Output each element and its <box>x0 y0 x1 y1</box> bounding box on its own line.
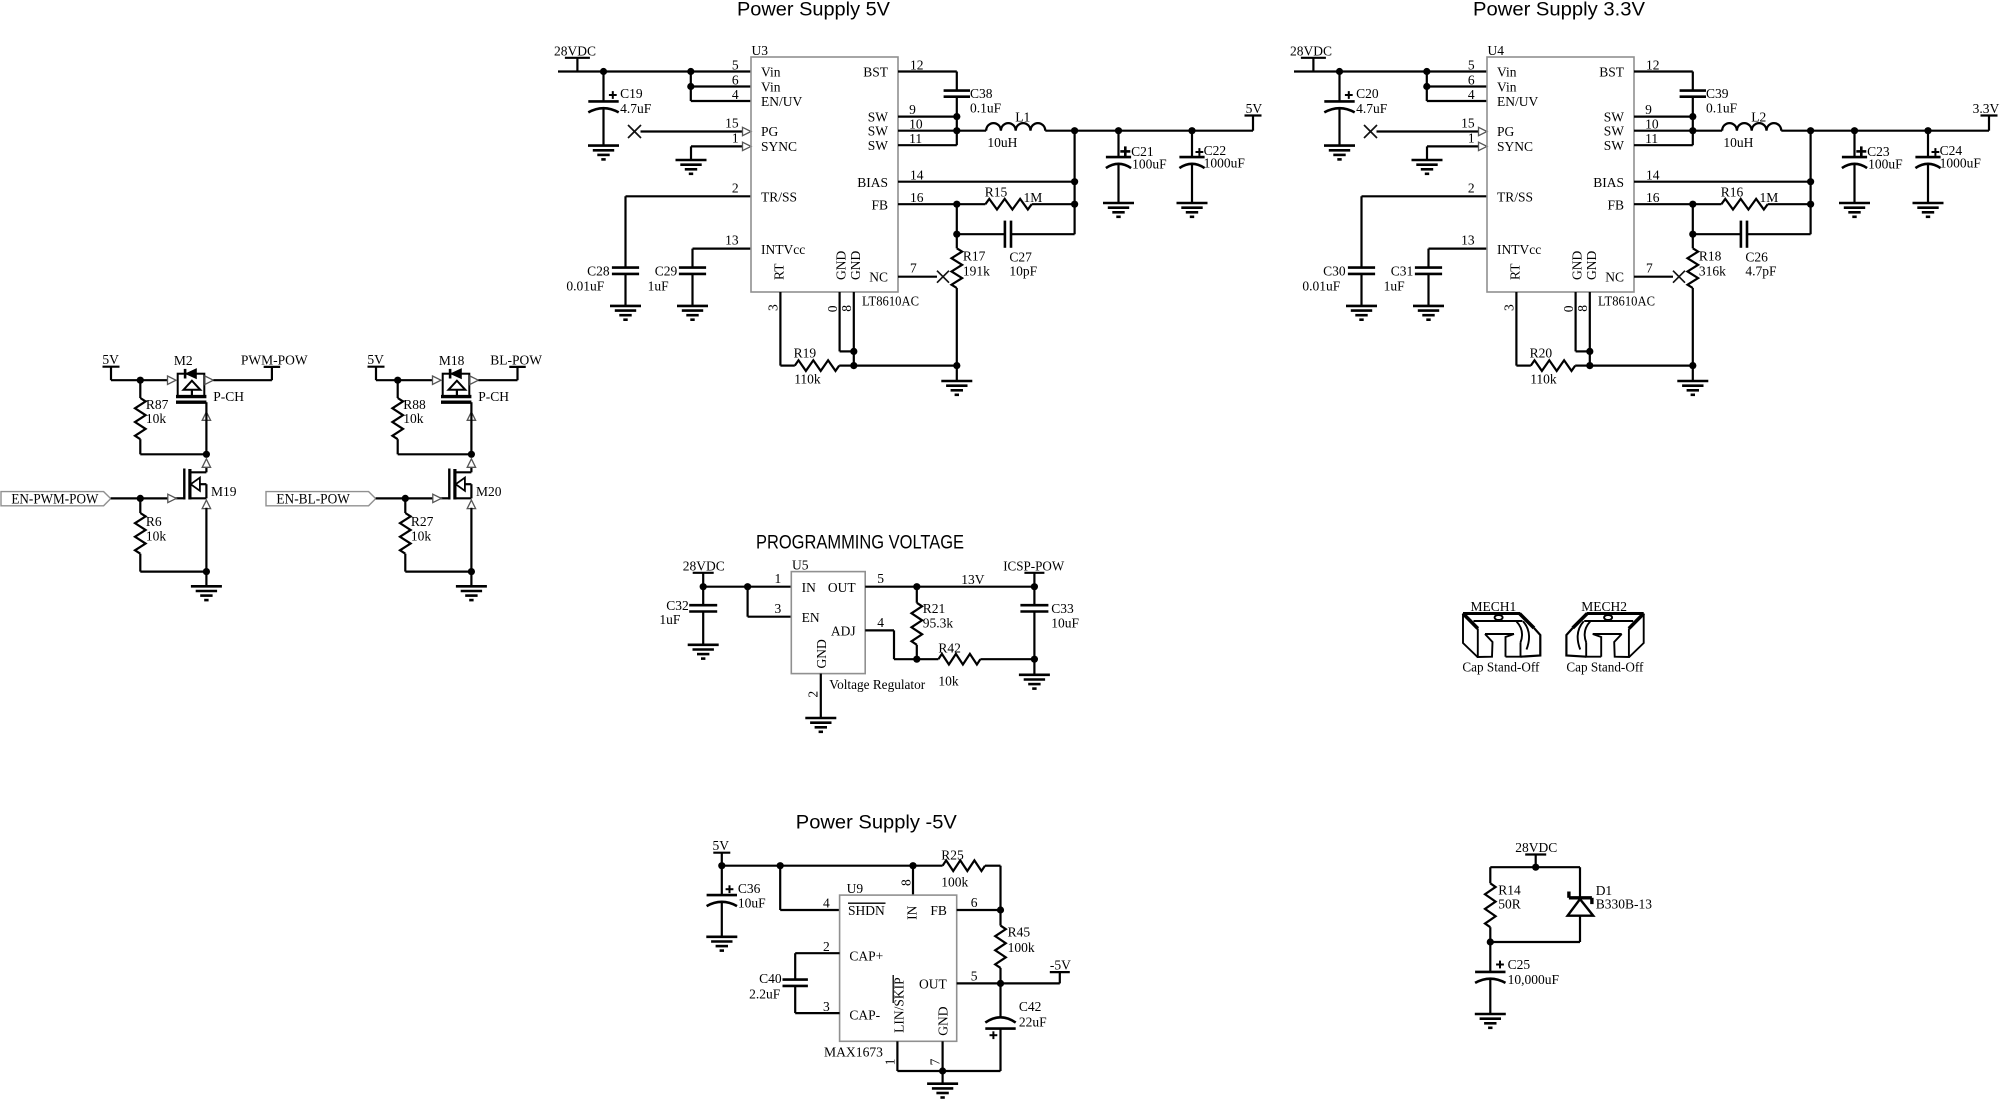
ground (IC) <box>1677 380 1708 383</box>
svg-text:L2: L2 <box>1751 110 1766 125</box>
svg-text:C36: C36 <box>738 881 761 896</box>
wire CAP- pin 3 <box>795 1012 839 1014</box>
svg-text:C25: C25 <box>1508 957 1531 972</box>
junction <box>953 231 960 238</box>
junction <box>953 362 960 369</box>
svg-text:IN: IN <box>802 580 816 595</box>
svg-text:MAX1673: MAX1673 <box>824 1045 883 1060</box>
svg-text:11: 11 <box>1645 131 1658 146</box>
wire FB to C27 <box>1692 204 1694 234</box>
svg-text:OUT: OUT <box>828 580 856 595</box>
wire gate down <box>205 402 207 454</box>
svg-text:ADJ: ADJ <box>831 624 856 639</box>
svg-text:C30: C30 <box>1323 264 1346 279</box>
svg-text:U3: U3 <box>752 43 769 58</box>
svg-text:TR/SS: TR/SS <box>761 190 797 205</box>
svg-text:INTVcc: INTVcc <box>1497 242 1541 257</box>
capacitor C33 10uF <box>1033 587 1035 606</box>
svg-text:8: 8 <box>899 879 914 886</box>
svg-text:10k: 10k <box>938 673 959 688</box>
resistor R27 10k <box>404 498 406 513</box>
svg-text:4: 4 <box>732 87 739 102</box>
svg-text:SYNC: SYNC <box>761 139 797 154</box>
wire GND net <box>854 365 957 367</box>
transistor M2 P-CH body <box>178 374 205 397</box>
capacitor C38 0.1uF <box>944 89 970 92</box>
ground (SYNC) <box>1412 159 1443 162</box>
transistor M18 P-CH body <box>443 374 470 397</box>
svg-text:GND: GND <box>834 251 849 280</box>
wire to C29 <box>1427 249 1429 268</box>
capacitor C36 10uF <box>721 866 723 895</box>
wire OUT pin 5 <box>957 982 1060 984</box>
wire inductor to 5V <box>1045 130 1253 132</box>
gate arrow up <box>467 412 475 421</box>
wire to C29 <box>691 249 693 268</box>
svg-text:Voltage Regulator: Voltage Regulator <box>829 677 925 692</box>
capacitor C27 10pF <box>957 233 1005 235</box>
junction <box>687 83 694 90</box>
power flag 28VDC (D1) <box>1525 853 1546 855</box>
svg-text:NC: NC <box>1605 269 1624 284</box>
wire C33 to ground <box>1033 659 1035 675</box>
svg-text:OUT: OUT <box>919 977 947 992</box>
svg-text:0.1uF: 0.1uF <box>970 101 1002 116</box>
junction <box>1851 127 1858 134</box>
power flag 5V (M18) <box>368 366 385 368</box>
svg-text:EN/UV: EN/UV <box>761 94 802 109</box>
svg-text:316k: 316k <box>1699 264 1726 279</box>
wire TR/SS pin 2 <box>626 195 752 197</box>
wire TR/SS pin 2 <box>1362 195 1488 197</box>
svg-text:50R: 50R <box>1498 897 1521 912</box>
capacitor C32 1uF <box>702 587 704 606</box>
junction <box>1071 201 1078 208</box>
arrow drain up <box>202 459 210 468</box>
svg-text:SW: SW <box>868 138 889 153</box>
wire 5V to source <box>111 379 168 381</box>
wire Vin branch vertical <box>690 72 692 102</box>
junction <box>1586 348 1593 355</box>
ground (M20) <box>456 585 487 588</box>
svg-text:SW: SW <box>1604 123 1625 138</box>
svg-text:PG: PG <box>1497 124 1515 139</box>
wire ADJ to R42 <box>894 658 917 660</box>
power flag 28VDC (U4 block) <box>1301 57 1326 59</box>
svg-text:6: 6 <box>971 895 978 910</box>
svg-text:28VDC: 28VDC <box>1290 43 1332 58</box>
capacitor C30 0.01uF <box>1348 266 1375 269</box>
svg-text:4: 4 <box>1468 87 1475 102</box>
junction <box>700 583 707 590</box>
svg-text:1M: 1M <box>1760 190 1779 205</box>
resistor R15 1M <box>957 203 986 205</box>
ground (M19) <box>191 585 222 588</box>
svg-text:2: 2 <box>732 180 739 195</box>
pin LIN/SKIP 1 lead <box>896 1041 898 1071</box>
junction <box>1924 127 1931 134</box>
wire EN to gate <box>111 497 177 499</box>
svg-text:4.7pF: 4.7pF <box>1745 264 1777 279</box>
svg-text:Power Supply 3.3V: Power Supply 3.3V <box>1473 0 1645 21</box>
svg-text:LT8610AC: LT8610AC <box>862 294 919 309</box>
power flag 5V (U9) <box>713 852 730 854</box>
ground (C25) <box>1475 1013 1506 1016</box>
junction <box>203 568 210 575</box>
svg-text:12: 12 <box>910 58 924 73</box>
svg-text:100k: 100k <box>1008 940 1035 955</box>
junction <box>1423 83 1430 90</box>
svg-text:5V: 5V <box>367 352 384 367</box>
ground (C29) <box>677 305 708 308</box>
junction <box>1689 362 1696 369</box>
junction <box>1807 178 1814 185</box>
wire BST pin 12 <box>898 70 957 72</box>
svg-text:10k: 10k <box>146 529 167 544</box>
svg-text:C31: C31 <box>1391 264 1414 279</box>
svg-text:5V: 5V <box>102 352 119 367</box>
svg-text:110k: 110k <box>794 372 821 387</box>
svg-text:Power Supply 5V: Power Supply 5V <box>737 0 890 21</box>
wire NC pin 7 <box>1634 276 1673 278</box>
svg-text:Power Supply -5V: Power Supply -5V <box>796 812 957 834</box>
junction <box>1689 231 1696 238</box>
svg-text:1: 1 <box>882 1059 897 1066</box>
svg-text:PWM-POW: PWM-POW <box>241 352 308 367</box>
power flag -5V <box>1050 971 1070 973</box>
resistor R17 191k <box>956 234 958 248</box>
wire to C28 <box>624 196 626 267</box>
wire source net <box>405 570 471 572</box>
svg-text:1uF: 1uF <box>659 612 681 627</box>
junction <box>953 127 960 134</box>
wire to ground <box>956 366 958 381</box>
svg-text:SW: SW <box>1604 138 1625 153</box>
svg-text:R25: R25 <box>941 848 964 863</box>
svg-text:5V: 5V <box>1246 101 1263 116</box>
svg-text:0.01uF: 0.01uF <box>566 279 604 294</box>
ground (C32) <box>688 643 719 646</box>
capacitor C40 2.2uF <box>783 978 808 981</box>
wire Vin branch vertical <box>1426 72 1428 102</box>
svg-text:L1: L1 <box>1015 110 1030 125</box>
svg-text:95.3k: 95.3k <box>923 616 954 631</box>
svg-text:9: 9 <box>1645 102 1652 117</box>
arrow drain up <box>467 459 475 468</box>
svg-text:SW: SW <box>1604 109 1625 124</box>
power flag 28VDC (U3 block) <box>565 57 590 59</box>
svg-text:R19: R19 <box>794 346 817 361</box>
capacitor C26 4.7pF <box>1693 233 1741 235</box>
svg-text:7: 7 <box>928 1058 943 1065</box>
inductor L1 10uH <box>986 123 1045 131</box>
pin arrow PG <box>743 127 752 135</box>
svg-text:1: 1 <box>732 130 739 145</box>
capacitor C22 1000uF <box>1191 131 1193 157</box>
wire to C38 <box>956 72 958 91</box>
svg-text:2: 2 <box>1468 180 1475 195</box>
resistor R87 10k <box>139 380 141 398</box>
svg-text:10uF: 10uF <box>1051 616 1079 631</box>
svg-text:U4: U4 <box>1488 43 1505 58</box>
svg-text:10uF: 10uF <box>738 896 766 911</box>
svg-text:CAP+: CAP+ <box>849 948 883 963</box>
wire SYNC pin <box>1427 145 1478 147</box>
svg-text:BIAS: BIAS <box>1593 175 1624 190</box>
IC U4 LT8610AC box <box>1487 57 1634 292</box>
wire source net <box>140 570 206 572</box>
junction <box>1807 127 1814 134</box>
pin arrow SYNC <box>743 142 752 150</box>
wire gate down <box>470 402 472 454</box>
ground (C31) <box>1413 305 1444 308</box>
svg-text:D1: D1 <box>1596 883 1613 898</box>
svg-text:M18: M18 <box>439 353 465 368</box>
wire source down <box>470 508 472 572</box>
svg-text:R42: R42 <box>938 641 961 656</box>
svg-text:-5V: -5V <box>1050 958 1071 973</box>
junction <box>600 68 607 75</box>
capacitor C28 0.01uF <box>612 266 639 269</box>
wire FB pin 6 <box>957 909 1001 911</box>
wire to ground <box>470 572 472 587</box>
power flag ICSP-POW <box>1024 572 1044 574</box>
svg-text:10k: 10k <box>146 411 167 426</box>
capacitor C24 1000uF <box>1927 131 1929 157</box>
svg-text:CAP-: CAP- <box>849 1008 880 1023</box>
wire output to C27 net <box>1073 131 1075 235</box>
svg-text:INTVcc: INTVcc <box>761 242 805 257</box>
svg-text:3: 3 <box>766 304 781 311</box>
transistor M19 <box>183 469 185 500</box>
svg-text:14: 14 <box>910 168 924 183</box>
ground (C23) <box>1839 202 1870 205</box>
resistor R18 316k <box>1692 234 1694 248</box>
ground (C30) <box>1346 305 1377 308</box>
resistor R16 1M <box>1693 203 1722 205</box>
svg-text:10k: 10k <box>411 529 432 544</box>
junction <box>687 68 694 75</box>
svg-text:FB: FB <box>871 197 888 212</box>
svg-text:4: 4 <box>877 615 884 630</box>
svg-text:5: 5 <box>732 58 739 73</box>
svg-text:BST: BST <box>1599 65 1625 80</box>
svg-text:FB: FB <box>1607 197 1624 212</box>
wire INTVcc pin 13 <box>1429 248 1488 250</box>
wire 28VDC to IN pin 1 <box>703 586 791 588</box>
svg-text:Vin: Vin <box>761 80 781 95</box>
pin RT lead <box>1515 292 1517 366</box>
svg-text:P-CH: P-CH <box>478 389 509 404</box>
svg-text:LT8610AC: LT8610AC <box>1598 294 1655 309</box>
junction <box>1423 68 1430 75</box>
wire 5V to source <box>376 379 433 381</box>
svg-text:0.01uF: 0.01uF <box>1302 279 1340 294</box>
junction <box>777 862 784 869</box>
junction <box>953 113 960 120</box>
svg-text:28VDC: 28VDC <box>1515 840 1557 855</box>
svg-text:R14: R14 <box>1498 883 1521 898</box>
svg-text:1uF: 1uF <box>648 279 670 294</box>
no-connect X on PG pin 15 <box>1364 125 1377 138</box>
svg-text:3: 3 <box>774 601 781 616</box>
svg-text:NC: NC <box>869 269 888 284</box>
svg-text:SHDN: SHDN <box>848 903 885 918</box>
wire CAP+ pin 2 <box>795 952 839 954</box>
svg-text:22uF: 22uF <box>1019 1015 1047 1030</box>
ground (C36) <box>706 935 737 938</box>
svg-text:FB: FB <box>930 903 947 918</box>
junction <box>744 583 751 590</box>
junction <box>1487 938 1494 945</box>
arrow source up <box>467 500 475 509</box>
junction <box>1532 864 1539 871</box>
wire to EN/UV pin 4 <box>691 100 751 102</box>
svg-text:5V: 5V <box>713 838 730 853</box>
wire SW pin 11 <box>898 144 957 146</box>
svg-text:R20: R20 <box>1530 346 1553 361</box>
wire output to C27 net <box>1809 131 1811 235</box>
svg-text:2: 2 <box>806 691 821 698</box>
junction <box>1071 178 1078 185</box>
wire SW pin 10 <box>1634 130 1693 132</box>
resistor R21 95.3k <box>916 587 918 603</box>
svg-text:GND: GND <box>848 251 863 280</box>
svg-text:PROGRAMMING VOLTAGE: PROGRAMMING VOLTAGE <box>756 532 964 554</box>
pin GND 8 lead <box>1589 292 1591 366</box>
wire GND net <box>1590 365 1693 367</box>
ground (U5) <box>805 717 836 720</box>
wire OUT to ICSP-POW <box>865 586 1034 588</box>
pin GND 0 lead <box>838 292 840 351</box>
svg-text:R27: R27 <box>411 514 434 529</box>
junction <box>1115 127 1122 134</box>
pin arrow SYNC <box>1479 142 1488 150</box>
junction <box>394 377 401 384</box>
junction <box>1807 201 1814 208</box>
svg-text:15: 15 <box>1461 116 1475 131</box>
wire to ground <box>1692 366 1694 381</box>
wire R to gate node <box>140 453 206 455</box>
svg-text:10uH: 10uH <box>1723 135 1753 150</box>
svg-text:C26: C26 <box>1745 250 1768 265</box>
svg-text:R45: R45 <box>1008 925 1031 940</box>
svg-text:10,000uF: 10,000uF <box>1508 972 1560 987</box>
wire BIAS pin 14 <box>898 181 1075 183</box>
IC U3 LT8610AC box <box>751 57 898 292</box>
svg-text:GND: GND <box>1584 251 1599 280</box>
svg-text:13: 13 <box>1461 233 1475 248</box>
junction <box>997 906 1004 913</box>
resistor R88 10k <box>397 380 399 398</box>
wire to inductor <box>957 130 986 132</box>
wire FB to C27 <box>956 204 958 234</box>
junction <box>913 583 920 590</box>
svg-text:R15: R15 <box>985 184 1008 199</box>
svg-text:16: 16 <box>1646 190 1660 205</box>
wire top rail <box>1490 866 1580 868</box>
ground (U9) <box>927 1082 958 1085</box>
wire 5V rail <box>722 865 913 867</box>
svg-text:GND: GND <box>936 1006 951 1035</box>
svg-text:M2: M2 <box>174 353 193 368</box>
no-connect X on NC <box>1673 271 1685 283</box>
capacitor C21 100uF <box>1117 131 1119 157</box>
svg-text:191k: 191k <box>963 264 990 279</box>
gate input arrow <box>433 494 442 502</box>
capacitor C31 1uF <box>1415 266 1442 269</box>
wire inductor to 3.3V <box>1781 130 1989 132</box>
resistor R42 10k <box>917 658 939 660</box>
svg-text:100uF: 100uF <box>1868 156 1903 171</box>
svg-text:13: 13 <box>725 233 739 248</box>
junction <box>850 348 857 355</box>
junction <box>1031 656 1038 663</box>
wire to ground <box>941 1071 943 1084</box>
svg-text:C32: C32 <box>666 598 689 613</box>
power flag 3.3V <box>1981 114 1998 116</box>
svg-text:4: 4 <box>823 896 830 911</box>
svg-text:M20: M20 <box>476 484 502 499</box>
resistor R25 100k <box>913 865 943 867</box>
junction <box>1689 127 1696 134</box>
svg-text:28VDC: 28VDC <box>683 558 725 573</box>
svg-text:4.7uF: 4.7uF <box>620 101 652 116</box>
svg-text:5: 5 <box>1468 58 1475 73</box>
wire to C38 <box>1692 72 1694 91</box>
wire SW pin 11 <box>1634 144 1693 146</box>
junction <box>137 377 144 384</box>
svg-text:GND: GND <box>814 639 829 668</box>
svg-text:SW: SW <box>868 109 889 124</box>
resistor R14 50R <box>1489 867 1491 883</box>
wire drain to BL-POW <box>478 379 517 381</box>
svg-text:2.2uF: 2.2uF <box>749 987 781 1002</box>
mechanical MECH1 cap stand-off <box>1463 614 1540 658</box>
ground (SYNC) <box>676 159 707 162</box>
wire EN pin 3 <box>748 616 792 618</box>
svg-text:Vin: Vin <box>761 65 781 80</box>
power flag 5V <box>1245 114 1262 116</box>
svg-text:7: 7 <box>910 261 917 276</box>
capacitor C29 1uF <box>679 266 706 269</box>
junction <box>850 362 857 369</box>
svg-text:R6: R6 <box>146 514 162 529</box>
svg-text:EN: EN <box>802 610 820 625</box>
power flag 28VDC (U5) <box>693 572 714 574</box>
capacitor C23 100uF <box>1853 131 1855 157</box>
wire drain to PWM-POW <box>213 379 272 381</box>
junction <box>718 862 725 869</box>
svg-text:R18: R18 <box>1699 249 1722 264</box>
wire to Vin pin 6 <box>1427 85 1487 87</box>
svg-text:3: 3 <box>1502 304 1517 311</box>
IC U9 MAX1673 box <box>840 895 957 1041</box>
wire source down <box>205 508 207 572</box>
wire ADJ down <box>893 630 895 659</box>
power flag BL-POW <box>509 366 526 368</box>
svg-text:100k: 100k <box>941 875 968 890</box>
resistor R20 110k <box>1516 365 1530 367</box>
junction <box>1689 113 1696 120</box>
no-connect X on NC <box>937 271 949 283</box>
wire to C28 <box>1360 196 1362 267</box>
junction <box>468 451 475 458</box>
svg-text:2: 2 <box>823 939 830 954</box>
svg-text:EN/UV: EN/UV <box>1497 94 1538 109</box>
svg-text:MECH2: MECH2 <box>1581 599 1627 614</box>
wire SHDN branch <box>779 866 781 910</box>
